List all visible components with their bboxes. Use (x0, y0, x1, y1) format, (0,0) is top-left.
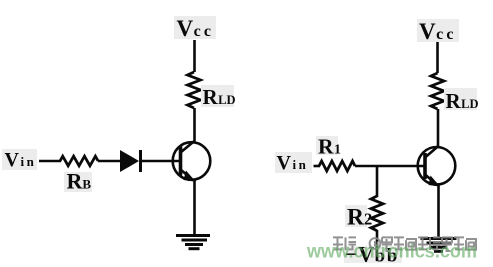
wire RLD to collector (left) (193, 108, 196, 141)
wire R1 to base (right) (355, 165, 425, 168)
node Vin (right) (275, 152, 312, 174)
wire emitter to ground (left) (193, 180, 196, 236)
wire junction to R2 (376, 166, 379, 197)
svg-text:www.cntronics.com: www.cntronics.com (306, 242, 477, 263)
node Vcc (left) (174, 16, 216, 41)
wire diode to base (left) (142, 160, 180, 163)
diode D1 (120, 150, 141, 172)
resistor R1 (319, 161, 355, 171)
wire Vin to RB (39, 160, 61, 163)
wire RLD to collector (right) (437, 109, 440, 146)
node Vcc (right) (417, 19, 459, 44)
transistor Q1 (left, NPN) (173, 141, 211, 182)
wire emitter to ground (right) (437, 185, 440, 238)
transistor Q2 (right, NPN) (418, 146, 456, 187)
ground (left) (176, 236, 210, 249)
ground (right) (421, 239, 457, 252)
resistor RLD (left) (188, 72, 201, 108)
resistor RLD (right) (431, 73, 444, 109)
label RLD (left) (201, 85, 236, 109)
resistor RB (60, 156, 98, 166)
wire RB to diode (98, 160, 121, 163)
label background -Vbb (344, 246, 402, 263)
label R1 (316, 135, 341, 159)
label RB (64, 169, 92, 194)
wire Vcc to RLD (right) (436, 42, 439, 73)
watermark CJK gray text (fake glyph strokes) (333, 237, 476, 251)
label R2 (345, 205, 372, 231)
wire R2 to -Vbb (376, 230, 379, 249)
wire Vcc to RLD (left) (193, 40, 196, 72)
node Vin (left) (2, 149, 37, 171)
label RLD (right) (444, 88, 479, 113)
wire Vin to R1 (314, 165, 321, 168)
resistor R2 (371, 196, 383, 231)
